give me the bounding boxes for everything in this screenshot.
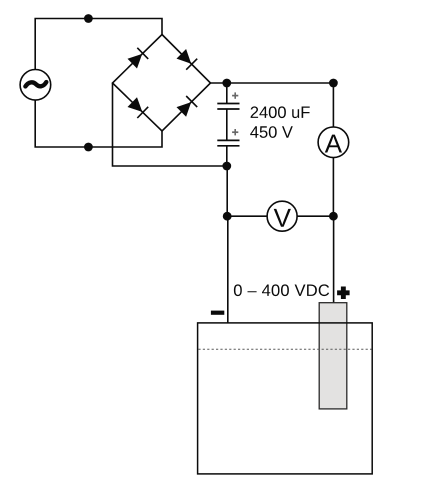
anode electrode plate (in tank) — [319, 303, 347, 409]
wire: - rail down to voltmeter row — [226, 166, 228, 216]
wire: bridge + output rail to ammeter branch — [211, 82, 334, 84]
minus terminal mark at cathode — [211, 311, 224, 315]
polarity + mark for C1 — [232, 92, 238, 98]
label: 0 - 400 VDC — [234, 284, 329, 296]
junction dot: + rail at capacitor top — [222, 79, 231, 88]
capacitor C1 (electrolytic, upper) — [217, 104, 239, 110]
bridge rectifier diamond wiring — [113, 35, 211, 132]
liquid level dashed line — [198, 348, 371, 350]
value label for capacitor bank — [250, 106, 310, 137]
wire: bridge - output down and across to capacitor bottom node — [113, 83, 227, 166]
diode D3 (bridge lower-left arm) — [128, 97, 149, 118]
AC source V1 (sine symbol) — [20, 70, 51, 101]
wire: ammeter down to voltmeter row — [332, 157, 334, 216]
diode D2 (bridge upper-right arm) — [177, 49, 198, 70]
junction dot: voltmeter row left — [223, 212, 232, 221]
wire: AC source top terminal up and across to bridge top node — [35, 19, 162, 70]
diode D1 (bridge upper-left arm) — [128, 48, 149, 69]
capacitor C2 (electrolytic, lower) — [217, 140, 239, 145]
junction dot on top AC wire — [84, 14, 93, 23]
wire: AC source bottom terminal down and across to bridge bottom node — [35, 100, 162, 147]
wire: + branch down to ammeter — [332, 83, 334, 127]
junction dot: + rail at ammeter branch — [329, 79, 338, 88]
wire: negative lead down to tank (cathode) — [227, 216, 229, 323]
wire: voltmeter right lead — [297, 215, 333, 217]
polarity + mark for C2 — [232, 129, 238, 135]
wire: voltmeter left lead — [227, 215, 267, 217]
electrolyte tank — [198, 323, 373, 474]
plus terminal mark at anode — [337, 287, 349, 300]
ammeter A — [318, 127, 349, 158]
voltmeter V — [267, 201, 297, 231]
junction dot: - rail at capacitor bottom — [222, 162, 231, 171]
wire: between C1 and C2 — [226, 109, 228, 140]
diode D4 (bridge lower-right arm) — [177, 96, 198, 117]
wire: C2 to - rail — [226, 146, 228, 166]
junction dot: voltmeter row right — [329, 212, 338, 221]
wire: + rail down to capacitor C1 — [226, 83, 228, 104]
wire: positive lead down to anode electrode — [333, 216, 335, 303]
junction dot on bottom AC wire — [84, 143, 93, 152]
